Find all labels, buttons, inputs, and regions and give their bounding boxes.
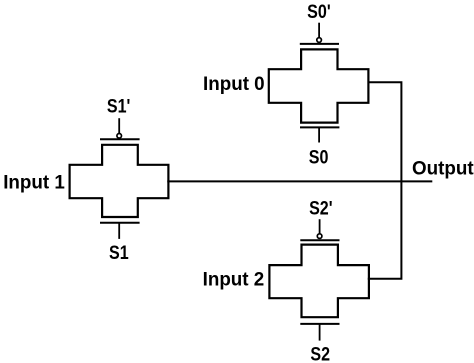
TG1 PMOS gate stem to S1' bbox=[118, 118, 120, 133]
TG0 NMOS gate bar bbox=[300, 126, 339, 128]
TG0 body (plus-shaped channel outline) bbox=[269, 49, 369, 122]
TG2 NMOS gate stem to S2 bbox=[319, 324, 321, 341]
wire: TG0 output right, down the shared bus, to TG2 output bbox=[368, 82, 402, 278]
TG1 NMOS gate stem to S1 bbox=[118, 223, 120, 239]
TG1 PMOS gate bar bbox=[100, 138, 140, 140]
transmission gate TG0 (Input 0) bbox=[269, 23, 369, 143]
TG1 PMOS bubble bbox=[117, 134, 122, 139]
svg-text:Output: Output bbox=[412, 158, 474, 179]
TG1 body (plus-shaped channel outline) bbox=[70, 145, 169, 217]
TG2 PMOS bubble bbox=[317, 234, 322, 239]
svg-text:Input 2: Input 2 bbox=[203, 269, 265, 290]
label S2 bbox=[310, 343, 330, 363]
label S0 bbox=[309, 146, 329, 168]
label S0' bbox=[307, 0, 330, 22]
label S2' bbox=[309, 197, 332, 219]
label Output bbox=[412, 158, 474, 179]
TG2 NMOS gate bar bbox=[300, 323, 339, 325]
TG1 NMOS gate bar bbox=[100, 222, 140, 224]
TG0 PMOS bubble bbox=[317, 38, 322, 43]
svg-text:Input 0: Input 0 bbox=[203, 73, 265, 94]
label S1' bbox=[107, 95, 130, 117]
label S1 bbox=[109, 242, 129, 264]
svg-text:S1': S1' bbox=[107, 95, 130, 117]
wire: TG1 output to Output terminal (horizontal) bbox=[167, 180, 432, 182]
svg-text:S2: S2 bbox=[310, 343, 330, 363]
svg-text:S1: S1 bbox=[109, 242, 129, 264]
label Input 2 bbox=[203, 269, 265, 290]
TG0 PMOS gate stem to S0' bbox=[318, 23, 320, 38]
svg-text:S2': S2' bbox=[309, 197, 332, 219]
label Input 0 bbox=[203, 73, 265, 94]
TG2 PMOS gate bar bbox=[300, 239, 339, 241]
svg-text:Input 1: Input 1 bbox=[3, 172, 65, 193]
transmission gate TG2 (Input 2) bbox=[269, 219, 369, 340]
TG0 PMOS gate bar bbox=[300, 43, 339, 45]
TG2 PMOS gate stem to S2' bbox=[319, 219, 321, 234]
label Input 1 bbox=[3, 172, 65, 193]
transmission gate TG1 (Input 1) bbox=[70, 118, 169, 239]
svg-text:S0: S0 bbox=[309, 146, 329, 168]
TG0 NMOS gate stem to S0 bbox=[318, 127, 320, 142]
svg-text:S0': S0' bbox=[307, 0, 330, 22]
TG2 body (plus-shaped channel outline) bbox=[269, 245, 369, 318]
